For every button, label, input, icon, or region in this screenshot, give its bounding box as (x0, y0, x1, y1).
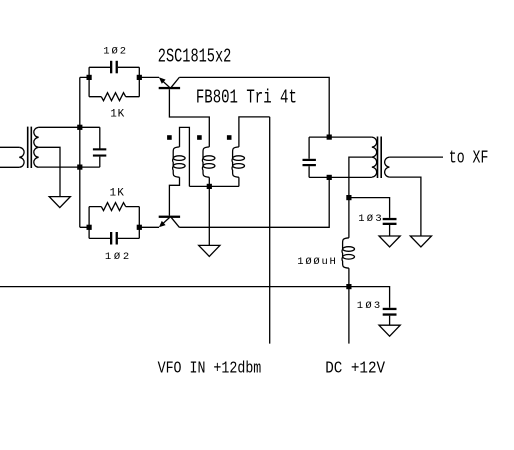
svg-text:1Ø3: 1Ø3 (357, 300, 380, 312)
capacitor across T1 secondary (99, 127, 101, 167)
capacitor C2 102 bottom (89, 237, 139, 239)
ground T2 secondary (410, 236, 431, 247)
transformer T2 core (378, 137, 382, 179)
wire W2 bottom stem (208, 177, 210, 186)
wire bottom rail of FB801 (189, 185, 239, 187)
svg-text:1Ø2: 1Ø2 (103, 45, 126, 57)
FB801 winding W3 top wire to VFO line (239, 117, 270, 147)
ground FB801 (199, 245, 220, 256)
wire T1 center tap (39, 147, 60, 196)
inductor 100uH (348, 198, 350, 238)
ground C103a (379, 236, 400, 247)
wire T1 secondary bottom to node (39, 166, 100, 168)
node dot RC2 right (137, 225, 142, 230)
svg-text:DC +12V: DC +12V (325, 358, 385, 377)
svg-text:VFO IN +12dbm: VFO IN +12dbm (158, 358, 262, 377)
wire W3 bottom stem (238, 177, 240, 186)
transistor Q1 emitter with arrow (162, 80, 170, 87)
node dot RC2 left (87, 225, 92, 230)
wire vertical bus left (80, 77, 89, 227)
wire DC +12V vertical (348, 287, 350, 344)
wire DC feed rail (0, 287, 390, 308)
transistor Q2 collector (171, 218, 179, 228)
svg-text:1ØØuH: 1ØØuH (297, 256, 336, 268)
capacitor across T2 primary (308, 137, 310, 177)
svg-text:1Ø2: 1Ø2 (105, 251, 129, 263)
ground C103b (379, 325, 400, 336)
wire VFO IN vertical (269, 117, 271, 344)
wire W1 bottom to Q2 base (169, 177, 179, 215)
wire FB801 ground stem (208, 186, 210, 245)
wire T2 secondary bottom to ground (389, 177, 421, 236)
node dot feed top (346, 195, 351, 200)
transformer T1 primary lead wires (0, 147, 19, 167)
resistor R2 1K bottom (89, 206, 139, 208)
phase dot W3 (227, 135, 232, 140)
node dot FB801 rail (207, 184, 212, 189)
transistor Q2 emitter with arrow (162, 218, 170, 225)
capacitor C1 102 top (89, 66, 139, 68)
node dot T2 bottom (327, 175, 332, 180)
wire Q2 emitter to RC2 (139, 226, 159, 228)
transformer T1 core (28, 127, 32, 168)
wire T2 primary center tap (349, 157, 372, 198)
node dot RC1 left (87, 75, 92, 80)
FB801 winding W2 coil (202, 147, 209, 177)
wire T1 secondary top to node (39, 126, 100, 128)
wire T2 secondary top to XF (389, 156, 443, 158)
svg-text:to XF: to XF (449, 149, 489, 169)
wire T2 bottom rail (309, 176, 372, 178)
svg-text:1K: 1K (110, 109, 124, 121)
capacitor C103b (383, 308, 397, 310)
phase dot W2 (197, 135, 202, 140)
wire Q2 collector to output tank bottom (179, 177, 329, 227)
svg-text:FB801 Tri 4t: FB801 Tri 4t (196, 86, 297, 108)
phase dot W1 (167, 135, 172, 140)
transistor Q1 collector (171, 77, 179, 87)
node junction dot top rail (77, 125, 82, 130)
node junction dot bottom rail (77, 165, 82, 170)
RC2 side bars (89, 207, 139, 239)
wire T2 top rail (309, 136, 372, 138)
FB801 winding W1 coil (173, 147, 180, 177)
node dot DC rail (346, 284, 351, 289)
ground for T1 center tap (49, 197, 70, 208)
wire feed node to C103a (349, 198, 390, 218)
capacitor C103a (383, 218, 397, 220)
transistor Q1 2SC1815 base bar (159, 87, 180, 89)
transistor Q2 2SC1815 base bar (159, 216, 180, 218)
svg-text:1Ø3: 1Ø3 (358, 213, 382, 225)
node dot T2 top (327, 135, 332, 140)
wire Q1 base to winding W2 (169, 89, 209, 147)
transformer T2 secondary winding (385, 157, 390, 177)
svg-text:2SC1815x2: 2SC1815x2 (158, 45, 232, 67)
wire RC1 to Q1 emitter (139, 76, 159, 78)
wire Q1 collector to output tank (179, 77, 329, 137)
svg-text:1K: 1K (110, 187, 125, 199)
transformer T2 primary winding (372, 137, 377, 177)
resistor R1 1K top (89, 96, 139, 98)
node dot RC1 right (137, 75, 142, 80)
transformer T1 primary winding (19, 147, 24, 167)
FB801 winding W3 coil (232, 147, 239, 177)
FB801 winding W1 top U link (180, 127, 190, 186)
transformer T1 secondary winding (34, 127, 39, 167)
RC1 side bars (89, 67, 139, 96)
